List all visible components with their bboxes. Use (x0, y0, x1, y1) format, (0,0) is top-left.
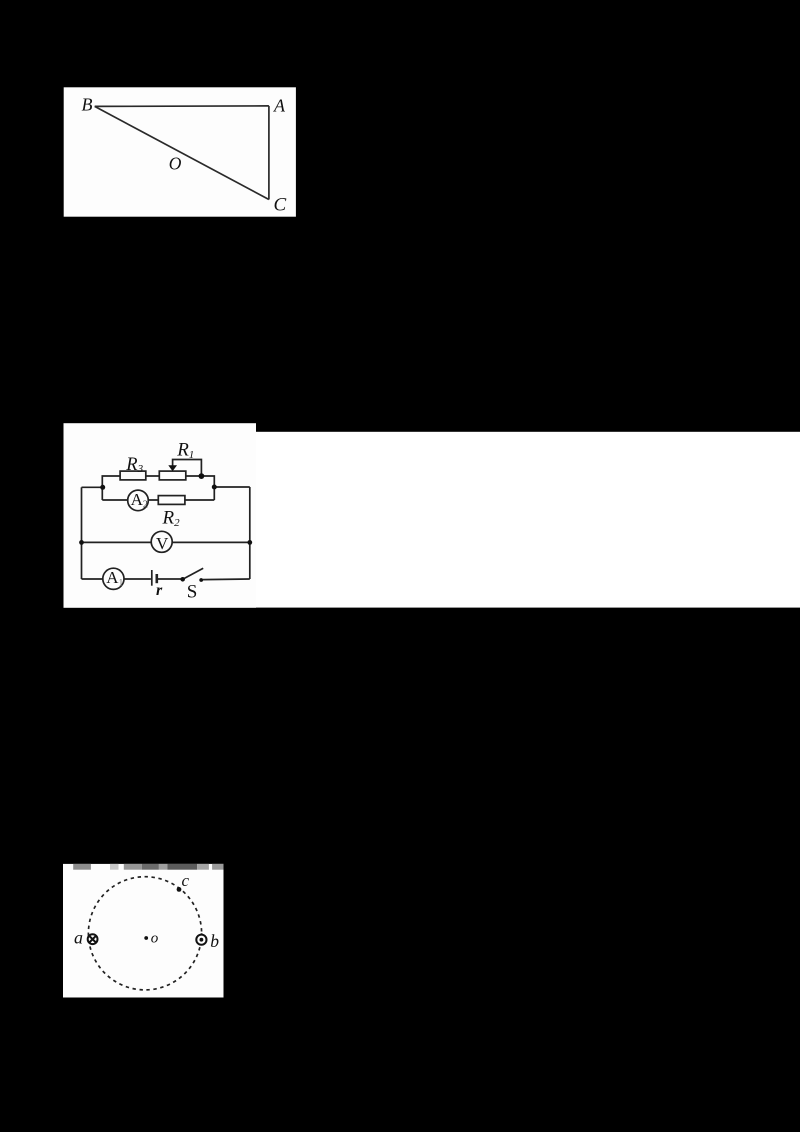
point dot c (177, 887, 182, 892)
junction dot voltmeter row left (79, 540, 84, 545)
figure 1 panel (64, 87, 296, 216)
junction dot right node (212, 485, 217, 490)
battery plate long (151, 570, 153, 586)
field-into-page symbol at a (88, 934, 98, 944)
rheostat arrow of R1 (168, 465, 177, 471)
wire: bottom parallel branch (102, 499, 214, 501)
junction dot voltmeter row right (247, 540, 252, 545)
dashed field boundary circle (88, 877, 201, 990)
resistor R2 body (158, 496, 185, 505)
svg-text:b: b (210, 931, 219, 951)
field-out-of-page symbol at b (196, 935, 206, 945)
svg-text:r: r (156, 582, 163, 599)
battery plate short (156, 574, 159, 583)
svg-text:B: B (82, 95, 93, 115)
wire: triangle side BA (top) (95, 105, 269, 108)
switch blade (183, 568, 204, 579)
svg-text:A: A (273, 96, 286, 116)
white band right of figure 2 (256, 432, 800, 608)
junction dot left node (100, 485, 105, 490)
svg-text:C: C (274, 195, 287, 216)
svg-text:S: S (187, 581, 198, 602)
figure 3 panel (63, 864, 224, 998)
svg-text:a: a (74, 928, 83, 948)
wire: triangle side BC (diagonal through O) (95, 106, 269, 199)
ammeter A1 body (103, 568, 124, 589)
junction dot R1 bracket (199, 473, 205, 479)
wire: right node stub (214, 486, 250, 488)
cropped text strip remnants (73, 864, 223, 870)
svg-text:c: c (182, 871, 190, 890)
wire: top parallel branch (102, 476, 214, 500)
figure 2 panel (64, 423, 257, 608)
wire: switch to right rail (203, 578, 250, 581)
switch right terminal dot (199, 578, 203, 582)
switch pivot dot (180, 577, 185, 582)
svg-text:o: o (151, 930, 159, 946)
wire: battery to switch pivot (158, 578, 183, 580)
resistor R1 body (rheostat) (159, 471, 186, 480)
wire: voltmeter row (82, 541, 250, 543)
wire: triangle side AC (right vertical) (268, 106, 270, 200)
voltmeter V body (151, 531, 172, 552)
resistor R3 body (120, 471, 146, 480)
wire: right rail (249, 487, 251, 579)
wire: battery row left (82, 578, 151, 580)
svg-text:O: O (169, 154, 182, 174)
wire: left node stub (82, 486, 103, 488)
rheostat slider bracket of R1 (173, 460, 202, 477)
wire: left rail (81, 487, 83, 579)
center dot o (144, 936, 148, 940)
svg-text:V: V (156, 534, 169, 553)
ammeter A2 body (128, 490, 149, 511)
